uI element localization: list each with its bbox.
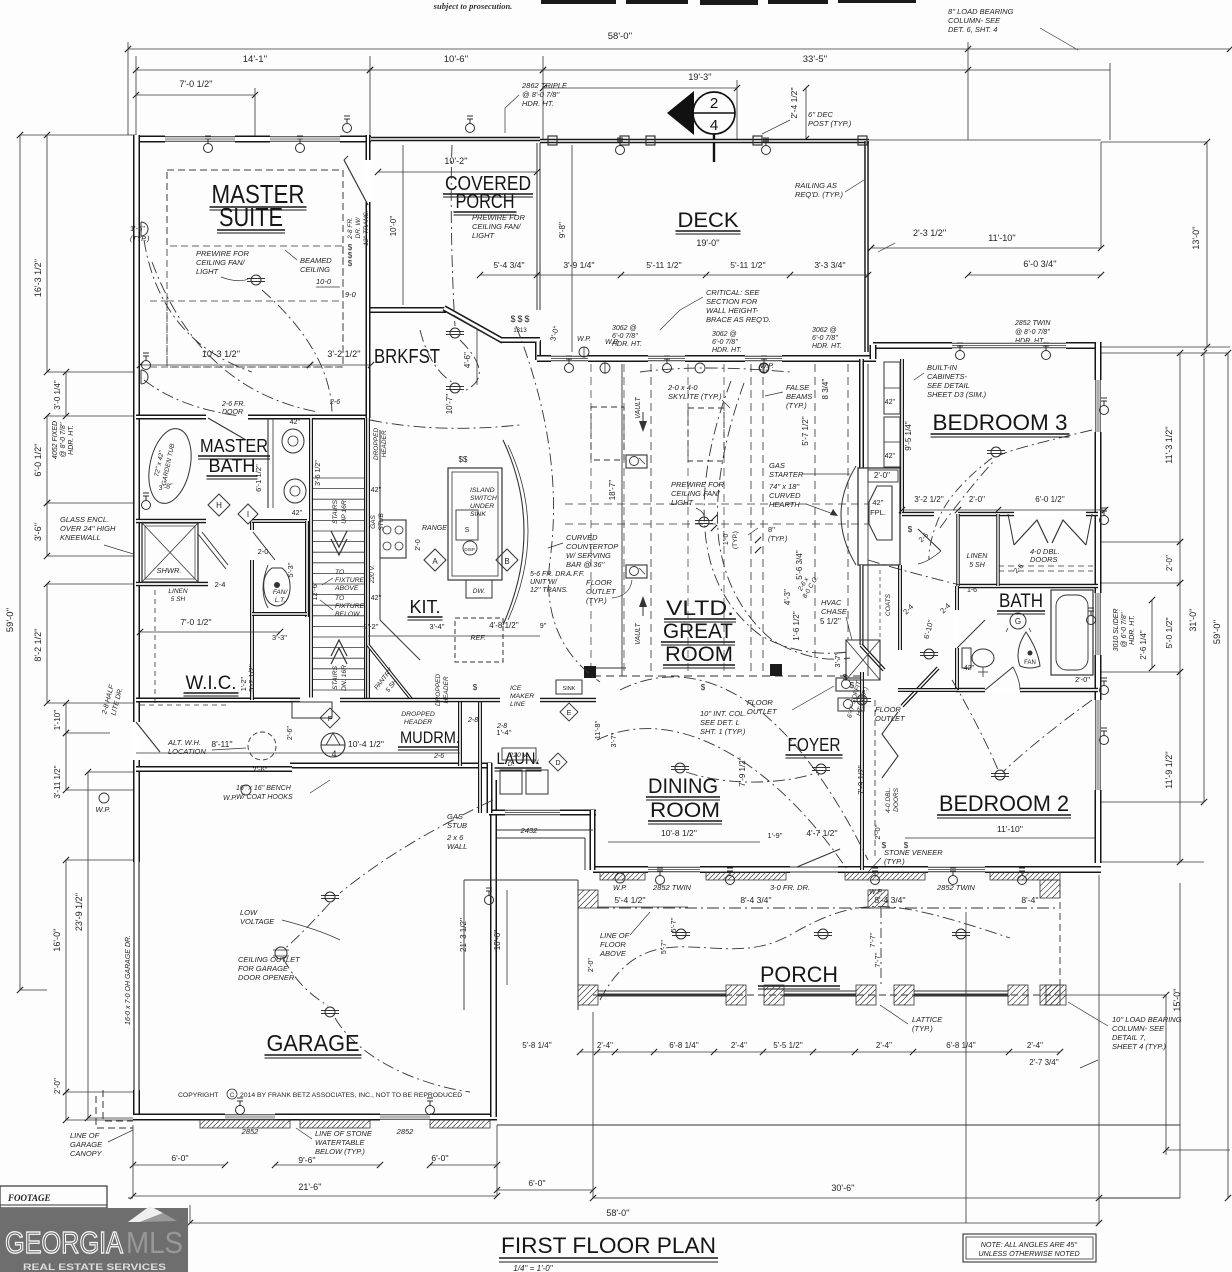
- label prewire porch: [472, 213, 526, 240]
- fireplace box: [858, 468, 900, 565]
- svg-text:10'-4 1/2'': 10'-4 1/2'': [348, 739, 384, 749]
- dim 2-0 bath: [258, 547, 269, 556]
- label prewire greatroom: [671, 480, 725, 516]
- circle 4 mud: [321, 733, 345, 759]
- svg-text:42'': 42'': [371, 595, 381, 602]
- wall fireplace north: [859, 359, 864, 468]
- svg-text:BEAMS: BEAMS: [786, 392, 812, 401]
- svg-text:5 SH: 5 SH: [171, 596, 186, 603]
- svg-text:CEILING FAN/: CEILING FAN/: [472, 222, 522, 231]
- deck top line extension: [869, 139, 1101, 141]
- label railing: [795, 180, 864, 199]
- wall mud south: [290, 763, 492, 813]
- svg-text:1'-6'': 1'-6'': [130, 224, 146, 233]
- svg-text:11'-3 1/2'': 11'-3 1/2'': [1164, 426, 1174, 464]
- stone veneer hatch 7: [430, 1120, 490, 1128]
- label vltd great room: [661, 597, 736, 668]
- svg-text:H: H: [216, 501, 222, 510]
- label bedroom 2: [937, 791, 1071, 818]
- label 5-6 fr dr unit: [530, 571, 568, 594]
- svg-text:3'-7'': 3'-7'': [609, 732, 618, 748]
- svg-text:PREWIRE FOR: PREWIRE FOR: [671, 480, 725, 489]
- label floor outlet left: [586, 578, 632, 605]
- svg-text:3'-7'': 3'-7'': [833, 652, 842, 668]
- svg-text:31'-0'': 31'-0'': [1188, 608, 1198, 631]
- svg-text:CANOPY: CANOPY: [70, 1149, 103, 1158]
- label lattice: [880, 1005, 943, 1033]
- svg-text:1313: 1313: [513, 328, 527, 334]
- svg-text:BRACE AS REQ'D.: BRACE AS REQ'D.: [706, 315, 771, 324]
- porch wall columns attached: [578, 880, 1060, 908]
- svg-text:GEORGIA: GEORGIA: [5, 1225, 123, 1260]
- svg-text:@ 8'-0 7/8'': @ 8'-0 7/8'': [522, 90, 560, 99]
- label covered porch: [443, 173, 533, 215]
- svg-text:8'-4'': 8'-4'': [1021, 895, 1039, 905]
- svg-text:4'-8 1/2'': 4'-8 1/2'': [489, 621, 519, 630]
- label gas starter: [769, 461, 850, 479]
- wall bath-wic divider: [136, 521, 208, 584]
- light master: [247, 275, 265, 285]
- dim ext verticals top: [128, 42, 1110, 140]
- note line of garage canopy: [70, 1130, 133, 1158]
- label 2-6 fr door: [221, 401, 245, 416]
- toilet room walls: [252, 521, 307, 617]
- svg-text:16'-0'': 16'-0'': [52, 928, 62, 951]
- svg-text:TO: TO: [335, 595, 345, 602]
- dim 5'-0 1/2 right: [1164, 580, 1183, 675]
- svg-text:BEDROOM 2: BEDROOM 2: [939, 791, 1069, 816]
- svg-text:DROPPED: DROPPED: [401, 711, 435, 718]
- dim 10-8 1/2 dining: [608, 828, 760, 842]
- svg-text:7'-7'': 7'-7'': [873, 952, 882, 968]
- dim 19'-3: [540, 72, 740, 91]
- svg-text:CEILING OUTLET: CEILING OUTLET: [238, 955, 301, 964]
- wall garage left: [133, 769, 140, 1117]
- wall bath west: [957, 586, 985, 690]
- svg-text:SECTION FOR: SECTION FOR: [706, 297, 758, 306]
- svg-text:MUDRM.: MUDRM.: [400, 728, 460, 747]
- label alt wh location: [0, 0, 1, 1]
- svg-text:L.T.: L.T.: [275, 597, 286, 604]
- range: [380, 520, 406, 558]
- svg-text:42'': 42'': [371, 487, 381, 494]
- label bench: [236, 780, 330, 801]
- dim 4-6 brkfst: [463, 330, 477, 385]
- svg-text:BEDROOM 3: BEDROOM 3: [933, 410, 1068, 435]
- skylight dashed 1: [591, 407, 624, 460]
- svg-text:(TYP.): (TYP.): [912, 1024, 933, 1033]
- stone veneer hatch 1: [600, 872, 645, 880]
- svg-text:23'-9 1/2'': 23'-9 1/2'': [74, 893, 84, 931]
- label stairs up: [332, 500, 348, 525]
- svg-text:A.F.F.: A.F.F.: [565, 569, 584, 578]
- svg-text:MLS: MLS: [126, 1225, 183, 1260]
- title first floor plan: [499, 1233, 718, 1272]
- floor outlet greatroom: [836, 678, 862, 691]
- circle E laun: [560, 703, 578, 721]
- label wp mud: [223, 785, 251, 802]
- svg-text:5'-4 1/2'': 5'-4 1/2'': [614, 895, 646, 905]
- svg-text:HEARTH: HEARTH: [769, 500, 800, 509]
- svg-text:BEAMED: BEAMED: [300, 256, 332, 265]
- svg-text:10'-0'': 10'-0'': [389, 215, 398, 236]
- georgia mls logo: [0, 1206, 188, 1272]
- svg-text:W.P.: W.P.: [577, 336, 591, 343]
- skylight dashed 2: [688, 408, 724, 461]
- svg-text:220 V.: 220 V.: [369, 565, 376, 585]
- svg-text:W.P.: W.P.: [605, 339, 619, 346]
- label DECK: [676, 209, 741, 234]
- dim 11'-3 1/2 right: [1164, 350, 1183, 545]
- dim 6'-0 1/2 left: [33, 413, 50, 506]
- dim 3-0 brkfst: [548, 324, 561, 341]
- circle F mud: [320, 708, 340, 728]
- svg-text:8'-4 3/4'': 8'-4 3/4'': [740, 895, 772, 905]
- svg-text:LIGHT: LIGHT: [472, 231, 496, 240]
- dim 11'-9 1/2 right: [1164, 669, 1183, 865]
- svg-text:DROPPED: DROPPED: [373, 428, 380, 460]
- svg-text:2-8 FR.: 2-8 FR.: [347, 217, 354, 240]
- label coats: [880, 570, 892, 640]
- svg-text:10'-6'': 10'-6'': [444, 54, 469, 65]
- note 8in load bearing column: [948, 7, 1078, 50]
- dim 16'-0 left: [52, 857, 69, 1095]
- switch cluster kitchen: [459, 455, 478, 692]
- wall bed3 hall west: [900, 359, 904, 514]
- sink mud: [556, 680, 582, 694]
- svg-text:RANGE: RANGE: [422, 525, 447, 532]
- dim garage bottom row: [130, 1153, 500, 1168]
- svg-text:SKYLITE (TYP.): SKYLITE (TYP.): [668, 392, 722, 401]
- svg-text:D: D: [555, 760, 560, 767]
- svg-text:10'' LOAD BEARING: 10'' LOAD BEARING: [1112, 1015, 1182, 1024]
- svg-text:HEADER: HEADER: [404, 719, 432, 726]
- svg-text:(TYP.): (TYP.): [732, 531, 739, 549]
- dim 5-7 vert porch: [669, 917, 877, 948]
- svg-text:C: C: [230, 1093, 235, 1099]
- wall garage right: [490, 780, 497, 1117]
- label stone veneer: [868, 848, 943, 872]
- window bath slider right: [1096, 593, 1100, 655]
- svg-text:10'-2'': 10'-2'': [444, 156, 467, 166]
- svg-text:CEILING FAN/: CEILING FAN/: [671, 489, 721, 498]
- svg-text:F: F: [328, 714, 333, 723]
- svg-text:FIRST FLOOR PLAN: FIRST FLOOR PLAN: [501, 1233, 716, 1258]
- dim 6-0 1/2 row: [1035, 495, 1065, 504]
- svg-text:3'-0 1/4'': 3'-0 1/4'': [53, 380, 62, 410]
- label line of stone watertable: [296, 1128, 373, 1156]
- svg-text:SHT. 1 (TYP.): SHT. 1 (TYP.): [700, 727, 746, 736]
- svg-text:UP 16R: UP 16R: [341, 500, 348, 524]
- dim 6-1 1/2 bath: [254, 464, 263, 492]
- dim 2-0 kit: [415, 539, 422, 551]
- svg-text:9'': 9'': [540, 623, 547, 630]
- svg-text:DOORS: DOORS: [1030, 555, 1058, 564]
- dim labels hall bed3: [899, 495, 1108, 513]
- wall mud east: [458, 700, 462, 766]
- svg-text:5'-0 1/2'': 5'-0 1/2'': [1164, 617, 1174, 649]
- label bedroom 3: [931, 410, 1070, 437]
- svg-text:1/4'' = 1'-0'': 1/4'' = 1'-0'': [513, 1264, 553, 1272]
- svg-text:DR. W/: DR. W/: [355, 216, 362, 238]
- svg-text:MAKER: MAKER: [510, 693, 534, 700]
- svg-text:16-0 x 7-0 OH GARAGE DR.: 16-0 x 7-0 OH GARAGE DR.: [125, 935, 132, 1025]
- svg-text:DECK: DECK: [678, 209, 739, 232]
- svg-text:VAULT: VAULT: [635, 396, 642, 418]
- master tray ceiling dashed: [167, 170, 343, 367]
- garden tub: [143, 425, 198, 508]
- dim 7-0 1/2 wic: [137, 617, 283, 635]
- label 16-0x7-0 garage dr: [125, 935, 132, 1025]
- svg-text:@ 8'-0 7/8'': @ 8'-0 7/8'': [60, 422, 67, 458]
- svg-text:2'-6 1/4'': 2'-6 1/4'': [1139, 630, 1148, 660]
- label 42 fpl: [870, 498, 886, 517]
- wall bath vanity right: [268, 418, 273, 508]
- svg-text:4'-7 1/2'': 4'-7 1/2'': [806, 828, 838, 838]
- svg-text:BUILT-IN: BUILT-IN: [927, 363, 958, 372]
- svg-text:HDR. HT.: HDR. HT.: [712, 347, 742, 354]
- dim 2'-4 1/2 vertical: [789, 85, 809, 142]
- svg-text:4: 4: [331, 749, 336, 759]
- hall arcs: [868, 560, 960, 585]
- svg-text:42'': 42'': [290, 419, 300, 426]
- svg-text:FPL.: FPL.: [870, 508, 886, 517]
- svg-text:11'-10'': 11'-10'': [988, 233, 1016, 243]
- porch electric arc: [600, 906, 1010, 1000]
- kitchen counter left: [380, 430, 420, 660]
- label MASTER BATH: [198, 436, 270, 479]
- svg-text:ABOVE: ABOVE: [599, 949, 627, 958]
- dim 11-8 dining: [593, 720, 602, 739]
- wall bed3 closet top: [902, 512, 1098, 517]
- linen closet hall: [958, 514, 998, 586]
- svg-text:3062 @: 3062 @: [712, 331, 737, 338]
- brkfst bay window glass: [455, 316, 497, 340]
- note glass enclosure: [60, 515, 140, 556]
- window bedroom3 north: [952, 343, 1066, 347]
- label dining room: [646, 775, 722, 824]
- svg-text:@ 8'-0 7/8'': @ 8'-0 7/8'': [1015, 329, 1051, 336]
- svg-text:5'-8 1/4'': 5'-8 1/4'': [522, 1041, 552, 1050]
- svg-text:S: S: [465, 527, 470, 534]
- svg-text:KNEEWALL: KNEEWALL: [60, 533, 101, 542]
- svg-text:15'-0'': 15'-0'': [1172, 988, 1182, 1011]
- lights dining: [671, 763, 830, 774]
- svg-text:STUB: STUB: [447, 821, 467, 830]
- dim 11-10 bed2: [905, 824, 1095, 838]
- note 4052 fixed window left: [52, 421, 75, 459]
- porch brkfst arcs: [451, 145, 479, 392]
- svg-text:6'-0 1/2'': 6'-0 1/2'': [1035, 495, 1065, 504]
- cropped warning text: subject to prosecution: [433, 1, 513, 11]
- svg-text:COLUMN- SEE: COLUMN- SEE: [1112, 1024, 1165, 1033]
- dim 42 kit: [371, 487, 381, 602]
- svg-text:WALL: WALL: [447, 842, 467, 851]
- wp deck symbols: [600, 339, 769, 374]
- svg-text:2852: 2852: [241, 1127, 260, 1136]
- wall covered porch top: [371, 137, 540, 142]
- switch cluster south: [882, 841, 909, 850]
- svg-text:FOOTAGE: FOOTAGE: [7, 1193, 51, 1203]
- dim 7'-0 1/2 top: [133, 79, 258, 98]
- label foyer: [786, 735, 843, 758]
- wall brkfst to greatroom: [501, 340, 540, 360]
- label copyright: [178, 1089, 462, 1099]
- svg-text:GARAGE: GARAGE: [267, 1030, 360, 1056]
- svg-text:GAS: GAS: [447, 812, 463, 821]
- wall covered porch right edge: [537, 143, 540, 310]
- svg-text:BELOW: BELOW: [335, 611, 360, 618]
- svg-text:5'-2 1/2'': 5'-2 1/2'': [247, 664, 256, 692]
- svg-text:SEE DET. L: SEE DET. L: [700, 718, 740, 727]
- label curved hearth: [769, 482, 838, 516]
- vault arrows: [635, 396, 647, 644]
- svg-text:BATH: BATH: [209, 456, 256, 476]
- svg-text:LIGHT: LIGHT: [196, 267, 220, 276]
- svg-text:6'-8 1/4'': 6'-8 1/4'': [669, 1041, 699, 1050]
- svg-text:2'-0'': 2'-0'': [588, 958, 595, 972]
- svg-text:59'-0'': 59'-0'': [5, 608, 16, 633]
- dim 42 builtin: [885, 399, 895, 460]
- svg-text:5'-4 3/4'': 5'-4 3/4'': [493, 260, 525, 270]
- dim master 3'-2 1/2: [307, 349, 374, 368]
- svg-text:DROPPED: DROPPED: [435, 674, 442, 706]
- dim 59'-0 left: [5, 132, 133, 993]
- svg-text:3'-6'': 3'-6'': [33, 523, 43, 541]
- dim 2'-6 1/4 right: [1139, 597, 1155, 671]
- dims bed2 row: [873, 824, 882, 840]
- label 6-0 soffit foyer: [846, 679, 870, 719]
- label master suite: [210, 179, 307, 233]
- label 4-0 dbl doors bed3: [1030, 547, 1060, 564]
- svg-text:4'-6'': 4'-6'': [463, 351, 472, 368]
- svg-text:HEADER: HEADER: [443, 676, 450, 703]
- dim 1'-10 left: [53, 700, 69, 736]
- svg-text:1'-6 1/2'': 1'-6 1/2'': [792, 611, 801, 641]
- label floor outlet dining: [875, 705, 906, 723]
- dim 8 3/4 vert: [821, 378, 830, 399]
- porch column rails: [598, 991, 1008, 995]
- pantry: [368, 645, 412, 700]
- svg-text:5 1/2'': 5 1/2'': [820, 617, 841, 626]
- svg-text:3'-2 1/2'': 3'-2 1/2'': [914, 495, 944, 504]
- svg-text:2'-6'': 2'-6'': [252, 765, 268, 774]
- porch lights: [672, 929, 970, 939]
- svg-text:2852 TWIN: 2852 TWIN: [1014, 320, 1051, 327]
- svg-text:CHASE: CHASE: [821, 607, 848, 616]
- svg-text:2-6: 2-6: [433, 753, 444, 760]
- svg-text:FIXTURE: FIXTURE: [335, 603, 365, 610]
- wall south dining-bed2: [593, 866, 1101, 873]
- svg-text:LINE OF: LINE OF: [70, 1131, 100, 1140]
- svg-text:2'-0'': 2'-0'': [1075, 675, 1091, 684]
- wall master suite left: [133, 135, 140, 769]
- svg-text:DW.: DW.: [473, 588, 486, 595]
- svg-text:2'-4'': 2'-4'': [1027, 1041, 1044, 1050]
- label bath: [997, 591, 1045, 614]
- svg-text:$: $: [882, 841, 887, 850]
- labels 2852 twin south: [652, 883, 976, 892]
- wp symbols greatroom wall: [695, 363, 774, 373]
- dim 2'-0 right a: [1165, 539, 1183, 586]
- svg-text:18'-7'': 18'-7'': [608, 479, 617, 500]
- dining foyer arcs: [597, 677, 868, 868]
- svg-text:8 3/4'': 8 3/4'': [821, 378, 830, 399]
- svg-text:W/ SERVING: W/ SERVING: [566, 551, 611, 560]
- svg-text:21'-6'': 21'-6'': [298, 1182, 321, 1192]
- svg-text:7'-0 1/2'': 7'-0 1/2'': [180, 617, 212, 627]
- svg-text:PREWIRE FOR: PREWIRE FOR: [196, 249, 250, 258]
- window and fixture wall symbols: [142, 116, 1109, 1115]
- window laundry south: [505, 810, 560, 814]
- svg-text:9'-8'': 9'-8'': [558, 221, 567, 238]
- svg-text:1'-2'': 1'-2'': [241, 677, 248, 691]
- switch dollar cluster brkfst: [510, 314, 529, 334]
- svg-text:COLUMN- SEE: COLUMN- SEE: [948, 16, 1001, 25]
- dim 18-7: [608, 479, 617, 500]
- svg-text:10'-7'': 10'-7'': [445, 393, 454, 414]
- bottom dim connectors: [133, 875, 1166, 1223]
- switch bed3: [701, 525, 913, 692]
- fridge: [455, 618, 503, 662]
- cropped bold header text bars: [541, 0, 916, 5]
- wp deck edge: [577, 336, 591, 357]
- svg-text:3'-3 3/4'': 3'-3 3/4'': [814, 260, 846, 270]
- window greatroom north 3: [745, 356, 782, 360]
- dim 6'-0 3/4 right: [965, 140, 1104, 278]
- dim 1-6 1/2 vert: [792, 611, 801, 641]
- svg-text:$$: $$: [459, 455, 468, 464]
- dishwasher: [466, 580, 492, 598]
- svg-text:9'-6'': 9'-6'': [298, 1155, 316, 1165]
- dim 2-7 3/4 porch: [1029, 1058, 1098, 1068]
- wall kitchen west: [366, 418, 370, 700]
- dim 6-0 stoop: [494, 1178, 596, 1193]
- svg-text:$: $: [908, 525, 913, 534]
- svg-text:STAIRS: STAIRS: [332, 500, 339, 525]
- svg-text:(TYP.): (TYP.): [786, 401, 807, 410]
- dim 30-6: [590, 1183, 1102, 1201]
- label 2432: [520, 826, 539, 835]
- svg-text:$: $: [517, 314, 522, 324]
- door master-porch diagonal: [344, 156, 368, 205]
- svg-text:2'-0'': 2'-0'': [53, 1077, 62, 1094]
- svg-text:DN. 16R: DN. 16R: [341, 665, 348, 691]
- svg-text:11'-10'': 11'-10'': [997, 824, 1023, 834]
- label range: [422, 525, 447, 532]
- svg-text:$: $: [850, 681, 855, 690]
- svg-text:2'-0'': 2'-0'': [969, 495, 986, 504]
- svg-text:11'-8'': 11'-8'': [593, 720, 602, 739]
- circle H bath: [208, 494, 230, 516]
- stair center rail: [331, 531, 347, 664]
- bath toilet: [962, 648, 994, 677]
- svg-text:5'-7'': 5'-7'': [661, 940, 668, 954]
- island sink: [456, 510, 478, 540]
- label prewire master: [196, 249, 250, 281]
- svg-text:CABINETS-: CABINETS-: [927, 372, 968, 381]
- toilet master: [264, 568, 290, 606]
- svg-text:2-4: 2-4: [215, 580, 226, 589]
- dim 2-6 mudhall: [252, 726, 294, 774]
- dim 8 typ greatroom: [711, 515, 787, 553]
- svg-text:POST (TYP.): POST (TYP.): [808, 119, 852, 128]
- dim 2'-3 1/2 note: [868, 228, 947, 252]
- svg-text:10-0: 10-0: [316, 277, 332, 286]
- stone veneer hatch 5: [200, 1120, 290, 1128]
- dim 3-7 dining: [609, 732, 618, 748]
- svg-text:220 V.: 220 V.: [508, 752, 528, 759]
